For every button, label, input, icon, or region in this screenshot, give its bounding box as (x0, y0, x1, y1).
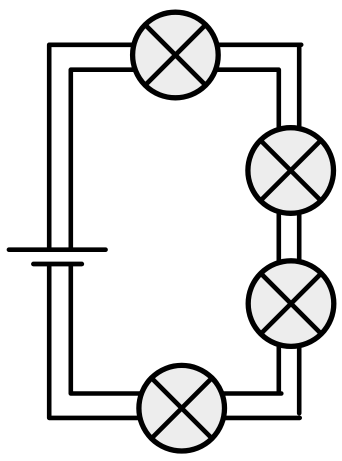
lamp L2 (upper right) (248, 128, 334, 214)
lamp L1 (top) (133, 12, 219, 98)
battery cell: long plate (positive terminal) (9, 247, 106, 252)
wire: outer loop (left-top vertical, top horizontal, right vertical) (49, 45, 301, 249)
battery cell: short plate (negative terminal) (33, 262, 81, 267)
lamp L3 (lower right) (248, 261, 334, 347)
wire: inner loop (left-top vertical, top horizontal, right vertical) (71, 70, 279, 392)
wire: inner loop bottom (left vertical below battery, bottom horizontal) (71, 266, 281, 394)
lamp L4 (bottom) (139, 365, 225, 451)
wire: outer loop right vertical (297, 45, 302, 413)
wire: outer loop bottom (left vertical below battery, bottom horizontal) (49, 266, 300, 418)
